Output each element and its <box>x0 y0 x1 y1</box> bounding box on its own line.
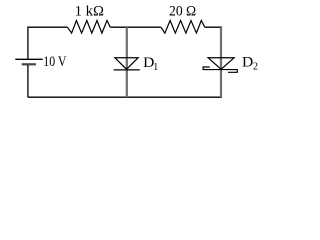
diode D1 cathode bar <box>114 69 140 71</box>
label D1 <box>143 54 158 73</box>
zener diode D2 triangle <box>208 58 234 70</box>
wire: D1 branch (node A down through D1 to bottom rail) <box>126 27 128 97</box>
svg-text:20 Ω: 20 Ω <box>169 4 196 20</box>
wire: top-middle segment (R1 to R2, node A junction) <box>110 26 161 28</box>
wire: left-bottom segment (battery - to bottom rail) <box>27 65 29 97</box>
label 10 V <box>43 54 67 70</box>
label D2 <box>242 53 258 72</box>
svg-text:1: 1 <box>153 62 158 73</box>
wire: top-left segment (battery + to R1) <box>28 27 68 60</box>
label 1 kΩ <box>75 4 104 20</box>
resistor R1 <box>67 21 110 34</box>
battery V1 10 V: negative plate <box>22 63 36 65</box>
wire: D2 branch (top-right corner down through D2 to bottom rail) <box>220 27 222 97</box>
svg-text:10 V: 10 V <box>43 54 67 70</box>
label 20 Ω <box>169 4 196 20</box>
zener diode D2 cathode bar (squared Z) <box>203 67 237 72</box>
battery V1 10 V: positive plate <box>15 58 42 60</box>
svg-text:1 kΩ: 1 kΩ <box>75 4 104 20</box>
svg-text:D: D <box>242 53 253 70</box>
resistor R2 <box>161 21 205 34</box>
diode D1 triangle <box>115 58 138 69</box>
wire: top-right segment (R2 to D2 branch corner) <box>205 26 222 28</box>
wire: bottom rail <box>28 96 222 98</box>
svg-text:2: 2 <box>253 61 258 72</box>
